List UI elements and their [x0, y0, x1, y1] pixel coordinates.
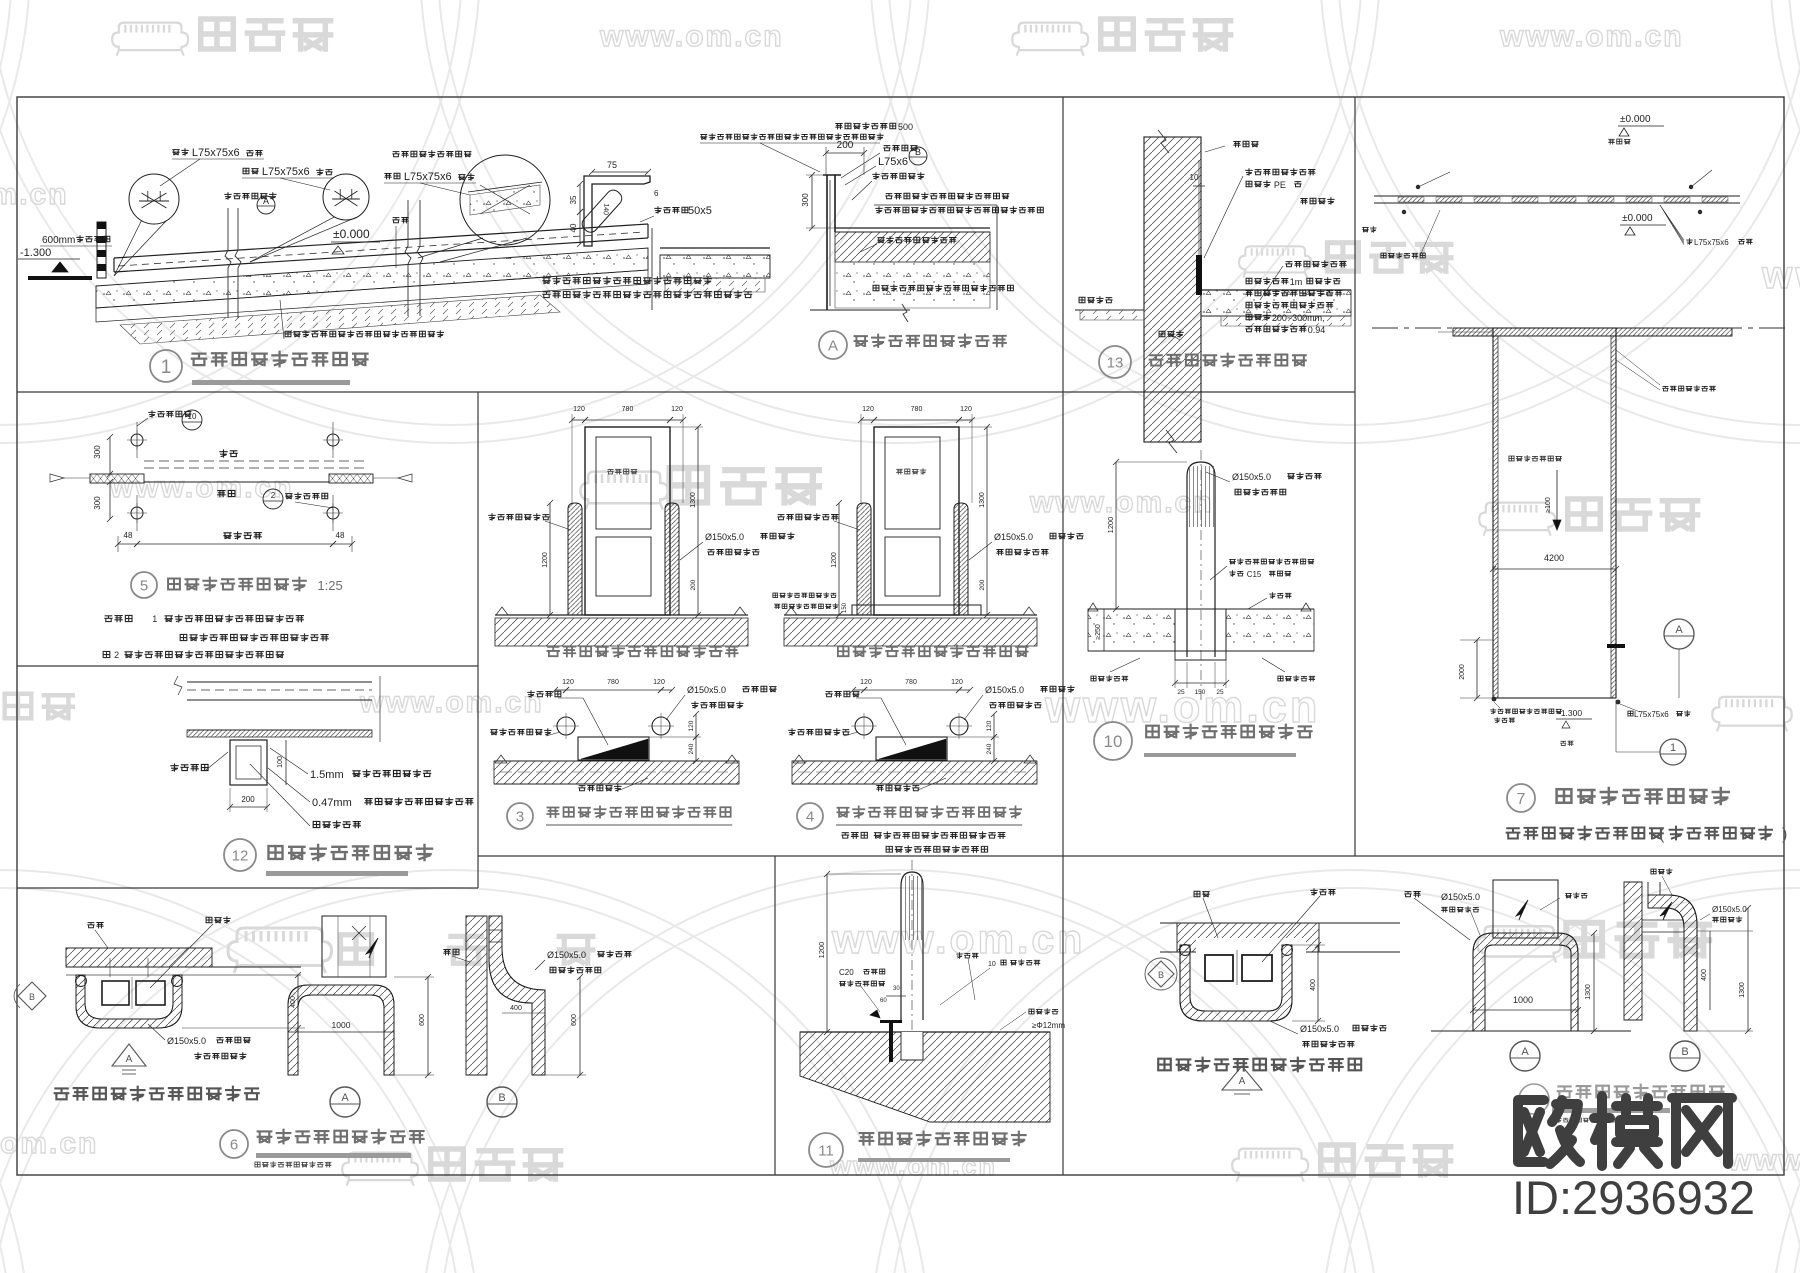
svg-text:300: 300 — [93, 445, 102, 459]
svg-text:Ø150x5.0: Ø150x5.0 — [1300, 1024, 1339, 1034]
svg-text:C15: C15 — [1247, 570, 1262, 579]
svg-text:L75x75x6: L75x75x6 — [1694, 238, 1729, 247]
svg-text:≥100: ≥100 — [1545, 497, 1552, 513]
svg-text:120: 120 — [960, 406, 972, 413]
svg-text:35: 35 — [569, 195, 578, 204]
svg-text:Ø150x5.0: Ø150x5.0 — [705, 532, 744, 542]
svg-text:Ø150x5.0: Ø150x5.0 — [1712, 905, 1747, 914]
svg-text:11: 11 — [818, 1142, 834, 1159]
svg-text:5: 5 — [140, 577, 148, 594]
svg-text:1200: 1200 — [542, 552, 549, 568]
svg-text:75: 75 — [607, 160, 617, 170]
svg-text:200: 200 — [837, 140, 854, 151]
svg-text:≥250: ≥250 — [1095, 624, 1102, 640]
svg-text:www.om.cn: www.om.cn — [829, 1151, 997, 1181]
svg-text:1300: 1300 — [1585, 984, 1592, 1000]
svg-text:www.om.cn: www.om.cn — [1499, 20, 1684, 53]
svg-text:Ø150x5.0: Ø150x5.0 — [1441, 892, 1480, 902]
svg-text:1300: 1300 — [690, 492, 697, 508]
svg-text:25: 25 — [1177, 689, 1185, 696]
svg-text:L75x75x6: L75x75x6 — [262, 166, 310, 178]
svg-text:B: B — [29, 992, 35, 1002]
svg-text:B: B — [1681, 1046, 1688, 1058]
svg-text:150: 150 — [1195, 689, 1206, 696]
svg-text:1300: 1300 — [979, 492, 986, 508]
svg-text:120: 120 — [862, 406, 874, 413]
svg-text:3: 3 — [516, 808, 524, 825]
svg-text:6: 6 — [230, 1136, 238, 1153]
svg-text:Ø150x5.0: Ø150x5.0 — [994, 532, 1033, 542]
svg-text:120: 120 — [951, 679, 963, 686]
svg-text:120: 120 — [671, 406, 683, 413]
svg-text:120: 120 — [562, 679, 574, 686]
svg-text:A: A — [1521, 1046, 1529, 1058]
svg-text:ID:2936932: ID:2936932 — [1512, 1171, 1755, 1224]
svg-text:L75x75x6: L75x75x6 — [192, 147, 240, 159]
svg-text:120: 120 — [653, 679, 665, 686]
svg-text:10: 10 — [988, 961, 996, 968]
svg-text:1200: 1200 — [831, 552, 838, 568]
svg-text:±0.000: ±0.000 — [1622, 213, 1653, 224]
svg-text:120: 120 — [573, 406, 585, 413]
svg-text:(: ( — [1659, 826, 1665, 843]
svg-text:600: 600 — [419, 1014, 426, 1026]
svg-text:www.om.cn: www.om.cn — [109, 471, 294, 504]
svg-text:60: 60 — [880, 998, 887, 1004]
svg-text:780: 780 — [911, 406, 923, 413]
svg-text:www.om.cn: www.om.cn — [359, 686, 544, 719]
svg-text:150: 150 — [842, 602, 848, 613]
svg-text:780: 780 — [622, 406, 634, 413]
svg-text:40: 40 — [569, 223, 578, 232]
svg-text:1200: 1200 — [817, 942, 826, 959]
svg-text:≥Φ12mm: ≥Φ12mm — [1032, 1021, 1065, 1030]
svg-text:10: 10 — [1104, 732, 1123, 751]
svg-text:6: 6 — [654, 189, 659, 198]
svg-text:2: 2 — [114, 650, 119, 660]
svg-text:L75x75x6: L75x75x6 — [404, 171, 452, 183]
svg-text:4200: 4200 — [1544, 553, 1564, 563]
svg-text:-1.300: -1.300 — [20, 247, 51, 259]
svg-text:1200: 1200 — [1106, 517, 1115, 534]
svg-text:10: 10 — [1190, 173, 1199, 182]
svg-text:50x5: 50x5 — [688, 205, 712, 217]
svg-text:600mm: 600mm — [42, 235, 75, 246]
svg-text:B: B — [1158, 970, 1164, 980]
svg-text:12: 12 — [232, 847, 249, 864]
svg-text:780: 780 — [607, 679, 619, 686]
svg-text:1.5mm: 1.5mm — [310, 769, 344, 781]
svg-text:PE: PE — [1274, 180, 1286, 190]
svg-text:4: 4 — [806, 808, 814, 825]
svg-text:1: 1 — [1670, 742, 1676, 754]
svg-text:A: A — [341, 1092, 349, 1104]
svg-text:780: 780 — [905, 679, 917, 686]
svg-text:25: 25 — [1216, 689, 1224, 696]
svg-text:www.om.cn: www.om.cn — [599, 20, 784, 53]
svg-text:B: B — [498, 1092, 505, 1104]
svg-text:0.47mm: 0.47mm — [312, 797, 352, 809]
svg-text:140: 140 — [602, 203, 610, 215]
svg-text:Ø150x5.0: Ø150x5.0 — [687, 685, 726, 695]
svg-text:200: 200 — [241, 795, 255, 804]
svg-text:B: B — [915, 147, 921, 157]
svg-text:A: A — [1239, 1076, 1246, 1087]
svg-text:A: A — [126, 1054, 133, 1065]
svg-text:-1.300: -1.300 — [1558, 708, 1582, 718]
svg-text:120: 120 — [860, 679, 872, 686]
svg-text:200: 200 — [690, 579, 697, 590]
svg-text:30: 30 — [893, 986, 900, 992]
svg-text:1: 1 — [161, 357, 172, 378]
svg-text:400: 400 — [1701, 969, 1708, 981]
svg-text:1: 1 — [152, 614, 157, 624]
svg-text:Ø150x5.0: Ø150x5.0 — [167, 1036, 206, 1046]
svg-text:0.94: 0.94 — [1308, 325, 1326, 335]
svg-text:100: 100 — [277, 756, 284, 768]
svg-text:): ) — [1782, 826, 1787, 843]
svg-text:Ø150x5.0: Ø150x5.0 — [985, 685, 1024, 695]
svg-text:300: 300 — [93, 496, 102, 510]
svg-text:±0.000: ±0.000 — [1620, 114, 1651, 125]
svg-text:2000: 2000 — [1459, 664, 1466, 680]
svg-text:1m: 1m — [1290, 277, 1303, 287]
svg-text:120: 120 — [688, 720, 695, 731]
svg-text:7: 7 — [1517, 791, 1526, 808]
svg-text:1000: 1000 — [1513, 995, 1533, 1005]
svg-text:1:25: 1:25 — [317, 578, 342, 593]
svg-text:L75x75x6: L75x75x6 — [1634, 710, 1669, 719]
svg-text:200: 200 — [979, 579, 986, 590]
svg-text:48: 48 — [336, 531, 345, 540]
svg-text:120: 120 — [986, 720, 993, 731]
svg-text:400: 400 — [1310, 979, 1317, 991]
svg-text:A: A — [1675, 624, 1683, 636]
svg-text:Ø150x5.0: Ø150x5.0 — [1232, 472, 1271, 482]
svg-text:Ø150x5.0: Ø150x5.0 — [547, 950, 586, 960]
svg-text:10: 10 — [188, 412, 197, 421]
svg-text:A: A — [828, 337, 838, 354]
svg-text:240: 240 — [688, 743, 695, 754]
svg-text:A: A — [263, 196, 269, 206]
svg-text:48: 48 — [124, 531, 133, 540]
svg-text:om.cn: om.cn — [0, 1127, 98, 1160]
svg-text:www.om.cn: www.om.cn — [0, 178, 69, 211]
svg-text:200~300mm,: 200~300mm, — [1272, 313, 1325, 323]
svg-text:L75x6: L75x6 — [878, 156, 908, 168]
svg-text:600: 600 — [571, 1014, 578, 1026]
svg-text:1000: 1000 — [332, 1020, 351, 1030]
svg-text:±0.000: ±0.000 — [333, 227, 370, 241]
svg-text:www.om.cn: www.om.cn — [1761, 254, 1800, 297]
svg-text:240: 240 — [986, 743, 993, 754]
svg-text:2: 2 — [271, 491, 276, 500]
svg-text:www.om.cn: www.om.cn — [831, 916, 1085, 962]
svg-text:500: 500 — [898, 122, 913, 132]
svg-text:1300: 1300 — [1739, 982, 1746, 998]
svg-text:300: 300 — [801, 193, 810, 207]
svg-text:13: 13 — [1107, 354, 1124, 371]
svg-text:www.om.cn: www.om.cn — [1029, 486, 1214, 519]
svg-text:C20: C20 — [839, 968, 854, 977]
svg-text:400: 400 — [510, 1005, 522, 1012]
